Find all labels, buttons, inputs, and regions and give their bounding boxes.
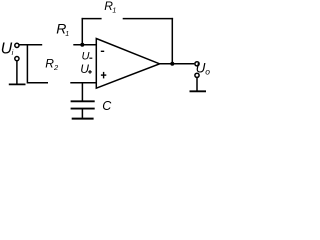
svg-text:R: R — [45, 57, 54, 71]
wire capacitor top lead — [81, 83, 83, 101]
wire Ui bottom terminal lead — [16, 61, 18, 84]
label R1 (series input resistor) — [56, 21, 69, 38]
svg-text:i: i — [12, 48, 14, 57]
terminal Ui bottom — [15, 57, 19, 61]
wire feedback right vertical — [171, 18, 173, 64]
svg-text:U: U — [80, 62, 89, 76]
capacitor C plates — [71, 101, 95, 108]
node junction dot at output — [170, 62, 174, 66]
svg-text:C: C — [102, 99, 112, 113]
wire R2 branch vertical and corner — [27, 45, 48, 83]
label R1 (feedback resistor) — [104, 0, 116, 14]
ground under Ui — [9, 83, 26, 85]
wire R1 to inverting input node — [73, 44, 97, 46]
op-amp inverting input marker - — [101, 50, 104, 52]
label Uo — [196, 61, 211, 77]
ground under capacitor C — [72, 118, 94, 120]
wire R2 to non-inverting input — [70, 82, 97, 84]
wire output — [159, 63, 195, 65]
wire capacitor bottom lead — [81, 109, 83, 118]
wire Uo bottom terminal lead — [196, 78, 198, 91]
svg-text:2: 2 — [53, 63, 59, 72]
label U+ (non-inverting node voltage) — [80, 62, 92, 76]
terminal Uo bottom — [195, 73, 199, 77]
label R2 — [45, 57, 59, 73]
svg-text:1: 1 — [65, 31, 69, 38]
wire feedback top left segment — [82, 18, 102, 20]
op-amp U1 triangle — [96, 39, 159, 89]
wire input top segment (Ui+ to R1) — [19, 44, 42, 46]
svg-text:U: U — [196, 61, 206, 76]
label Ui — [1, 41, 14, 58]
ground under Uo — [190, 90, 207, 92]
svg-text:U: U — [82, 50, 90, 62]
terminal Uo top — [195, 62, 199, 66]
label U- (inverting node voltage) — [82, 50, 93, 62]
svg-text:1: 1 — [112, 7, 116, 14]
op-amp non-inverting input marker + — [101, 72, 106, 79]
node junction dot at inverting input — [80, 43, 84, 47]
svg-text:o: o — [205, 67, 210, 77]
terminal Ui top — [15, 43, 19, 47]
wire feedback left vertical — [81, 18, 83, 45]
wire feedback top right segment — [123, 18, 173, 20]
